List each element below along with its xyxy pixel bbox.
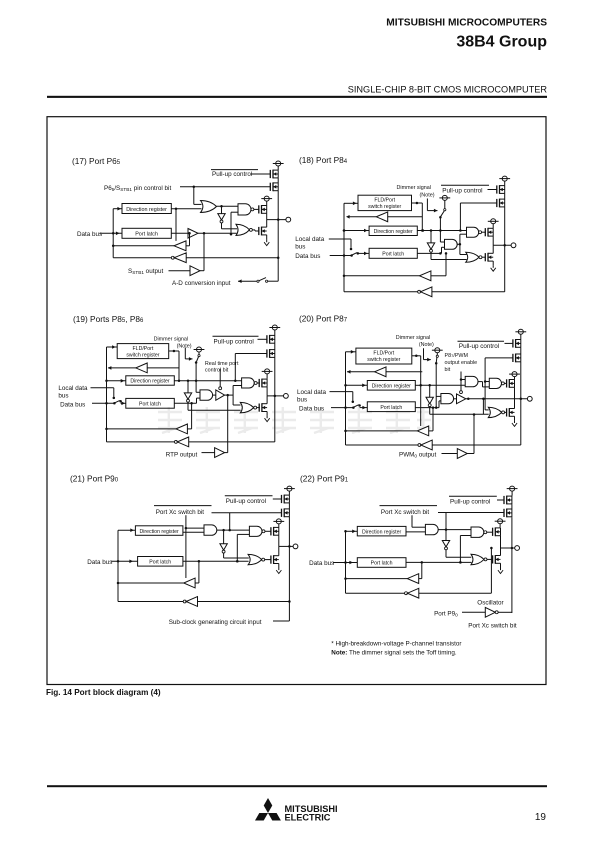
wire inverter out to NOR c18 (431, 252, 467, 260)
svg-text:(21) Port P90: (21) Port P90 (70, 474, 119, 484)
vcc terminal c17 mid (261, 196, 272, 206)
svg-text:bus: bus (297, 396, 307, 403)
svg-text:Fig. 14 Port block diagram (4: Fig. 14 Port block diagram (4) (46, 688, 161, 697)
label Local data bus c18 (295, 236, 325, 251)
switch blade + port latch arrow c19 (115, 400, 126, 405)
wire port latch row to NAND c17 (230, 212, 238, 235)
wire left bus c18 (343, 203, 346, 291)
svg-text:Local data: Local data (58, 385, 88, 392)
note asterisk (331, 641, 461, 648)
wire port P90 to buffer c22 (462, 611, 485, 613)
wire NOR out to Q4 c18 (482, 256, 486, 258)
vcc terminal c19 mid (262, 369, 273, 379)
wire readback row1 c17 (113, 245, 174, 247)
nand gate G2 c22 (471, 527, 487, 537)
wire Q3 drain c22 (500, 536, 502, 548)
wire readback row2 c17 (113, 257, 171, 259)
svg-text:(Note): (Note) (177, 343, 192, 349)
wire B3 out to bus c22 (498, 611, 512, 613)
wire readback row1 c22 (346, 578, 408, 580)
wire left bus c21 (117, 530, 120, 601)
svg-text:Port Xc switch bit: Port Xc switch bit (381, 509, 430, 516)
svg-text:Data bus: Data bus (60, 402, 85, 409)
wire port latch to buffer c17 (171, 232, 188, 234)
svg-text:P87/PWM: P87/PWM (445, 353, 469, 359)
buffer B1 fld readback c19 (136, 363, 147, 373)
svg-text:bit: bit (445, 367, 451, 373)
svg-text:FLD/Port: FLD/Port (373, 351, 394, 357)
buffer B2 readback c18 (420, 271, 431, 281)
footer wordmark MITSUBISHI ELECTRIC (285, 804, 338, 823)
wire dir reg input arrow c22 (344, 530, 357, 534)
title (22) Port P91 (300, 474, 349, 484)
wire dir reg input arrow c17 (113, 207, 122, 211)
and gate G1 c19 (200, 390, 213, 400)
wire inverter out to NOR c19 (188, 402, 241, 410)
inverter V1 c22 (442, 541, 449, 550)
label Dimmer signal c18 (397, 185, 435, 198)
svg-text:(19) Ports P85, P86: (19) Ports P85, P86 (73, 314, 144, 324)
label Data bus c20 (299, 405, 324, 412)
wire port latch out c20 (415, 401, 441, 408)
output pad P84 pin c18 (511, 243, 516, 248)
buffer B3 oscillator c22 (485, 607, 498, 617)
label Data bus c21 (87, 559, 112, 566)
buffer B4 readback c19 (174, 437, 188, 447)
svg-text:PWM0 output: PWM0 output (399, 451, 437, 458)
wire port latch out row c21 (183, 560, 249, 563)
wire NAND bottom input c22 (459, 536, 471, 564)
pmos Q2 pull-up c21 (282, 503, 290, 517)
svg-text:FLD/Port: FLD/Port (374, 198, 395, 204)
wire B2 input from pin c21 (198, 601, 290, 603)
wire Q2 gate corner c19 (234, 354, 267, 383)
page header: 38B4 Group title (456, 34, 547, 51)
wire Q3 drain c20 (514, 387, 516, 399)
svg-text:Port latch: Port latch (135, 232, 158, 238)
inverter V1 c19 (184, 393, 191, 402)
svg-text:Pull-up control: Pull-up control (212, 171, 252, 178)
buffer B1 c17 (188, 229, 198, 239)
switch blade + port latch arrow c18 (352, 252, 369, 256)
svg-text:Pull-up control: Pull-up control (442, 187, 482, 194)
wire readback row2 c22 (346, 592, 405, 594)
svg-text:bus: bus (295, 244, 305, 251)
label Sub-clock generating circuit input c21 (169, 619, 262, 626)
svg-text:Pull-up control: Pull-up control (226, 498, 266, 505)
wire right bus c22 (511, 518, 514, 613)
svg-text:SSTB1 output: SSTB1 output (128, 268, 163, 275)
wire pwm enable drop c20 (460, 372, 466, 393)
wire local data bus corner c18 (329, 239, 352, 250)
svg-text:Port latch: Port latch (382, 252, 404, 258)
wire NOR out to Q4 c20 (505, 411, 507, 413)
buffer B1 readback c22 (407, 574, 418, 584)
wire SSTB1 to buffer c17 (169, 270, 191, 272)
nand gate G2 c17 (238, 204, 254, 215)
buffer B3 readback c20 (417, 426, 428, 436)
svg-text:Pull-up control: Pull-up control (214, 338, 254, 345)
wire buffer out c19 (225, 394, 234, 397)
nand gate G2 c20 (489, 378, 504, 388)
wire Q3 drain c18 (492, 236, 494, 245)
svg-text:(Note): (Note) (419, 342, 434, 348)
buffer B4 sstb c17 (190, 266, 200, 276)
svg-text:Data bus: Data bus (299, 405, 324, 412)
buffer B3 readback c17 (171, 253, 186, 263)
svg-text:(20) Port P87: (20) Port P87 (299, 314, 348, 324)
wire RTP to buffer c19 (202, 452, 215, 454)
svg-text:output enable: output enable (445, 360, 478, 366)
wire A-D line with arrow c17 (238, 279, 257, 283)
wire dir reg input arrow c20 (344, 384, 367, 388)
vcc terminal c22 mid (495, 519, 506, 528)
wire pull-up to Q1 gate c18 (488, 189, 498, 191)
svg-text:Direction register: Direction register (130, 379, 169, 385)
inverter V1 c18 (427, 243, 434, 252)
svg-text:Data bus: Data bus (295, 253, 320, 260)
label Local data bus c19 (58, 385, 88, 400)
wire output row c18 (493, 244, 511, 246)
buffer B3 readback c18 (418, 287, 432, 297)
output pad P85 pin c19 (284, 394, 289, 399)
ground c21 (276, 568, 281, 574)
svg-text:Sub-clock generating circuit i: Sub-clock generating circuit input (169, 619, 262, 626)
wire FLD input arrow c18 (344, 202, 358, 206)
wire B2 input c18 (431, 252, 447, 276)
fld/port switch register box c20 (356, 348, 412, 364)
header rule (47, 96, 547, 98)
svg-text:Direction register: Direction register (374, 229, 413, 235)
wire right bus c20 (520, 362, 522, 445)
wire data bus line c19 (92, 402, 116, 405)
title (20) Port P87 (299, 314, 348, 324)
svg-text:Port latch: Port latch (139, 402, 161, 408)
page header: SINGLE-CHIP subtitle (348, 85, 548, 95)
wire B4 input from pin c19 (189, 441, 275, 443)
wire NAND out to Q3 c22 (487, 531, 493, 533)
wire FLD readback row c18 (388, 216, 423, 218)
label RTP output c19 (166, 451, 198, 458)
buffer B2 tri-state c19 (216, 387, 225, 400)
label Dimmer signal c19 (154, 337, 192, 350)
buffer B5 rtp c19 (215, 448, 225, 458)
switch blade + port latch arrow c20 (354, 404, 368, 409)
and gate G1 c22 (425, 524, 438, 534)
svg-text:38B4 Group: 38B4 Group (456, 34, 547, 51)
pmos Q1 pull-up c22 (504, 496, 512, 505)
nand gate G2 c18 (467, 227, 482, 237)
output pad P87 pin c20 (527, 396, 532, 401)
wire NAND out to Q3 gate c17 (254, 208, 259, 210)
wire right bus c19 (274, 357, 277, 442)
buffer B3 readback c19 (176, 424, 187, 434)
vcc terminal c18 mid (488, 219, 499, 229)
wire pull-up to Q1 gate c21 (273, 498, 282, 500)
pmos Q1 pull-up c18 (497, 185, 505, 194)
svg-text:Pull-up control: Pull-up control (450, 498, 490, 505)
wire readback row1 c19 (107, 428, 177, 430)
svg-text:bus: bus (58, 393, 68, 400)
wire dir reg out row c19 (174, 380, 241, 383)
wire AND out to buffer c19 (213, 394, 216, 396)
svg-text:(22) Port P91: (22) Port P91 (300, 474, 349, 484)
and gate Gpwm c20 (465, 376, 478, 386)
svg-text:Dimmer signal: Dimmer signal (397, 185, 431, 191)
vcc terminal c17 top (273, 161, 284, 170)
wire buffer out to NAND/NOR c19 (233, 386, 242, 406)
label Pull-up control c18 (441, 185, 489, 194)
wire pin-control-bit drop to OR c17 (194, 187, 202, 205)
nmos Q4 driver c22 (493, 548, 501, 568)
wire FLD input arrow c20 (346, 350, 356, 354)
wire dimmer note line c18 (427, 199, 437, 213)
nor gate G3 c21 (248, 554, 265, 564)
vcc terminal c21 top (284, 486, 295, 495)
output pad P91 pin c22 (515, 546, 520, 551)
label Dimmer signal c20 (396, 335, 434, 348)
direction register box c22 (357, 526, 406, 536)
svg-text:(18) Port P84: (18) Port P84 (299, 155, 348, 165)
port latch box c21 (138, 557, 183, 567)
wire RTP bit drop c19 (220, 369, 228, 453)
label Port Xc switch bit c21 (154, 506, 212, 516)
wire FLD readback row c19 (147, 367, 179, 369)
wire left bus c19 (105, 347, 108, 442)
label Port Xc switch bit c22 (380, 506, 438, 516)
wire dimmer note line c19 (185, 348, 192, 361)
wire B3 input from pin c17 (186, 257, 278, 259)
dimmer switch c19 (195, 355, 200, 364)
label Data bus c17 (77, 231, 102, 238)
wire readback row2 c20 (346, 444, 419, 446)
label A-D conversion input c17 (172, 280, 231, 287)
svg-text:Port Xc switch bit: Port Xc switch bit (156, 509, 205, 516)
svg-text:MITSUBISHI MICROCOMPUTERS: MITSUBISHI MICROCOMPUTERS (386, 18, 547, 29)
label PWM0 output c20 (399, 451, 437, 458)
svg-text:Port Xc switch bit: Port Xc switch bit (468, 623, 517, 630)
wire AND out row c22 (438, 529, 471, 531)
wire dir reg out row c20 (415, 384, 422, 386)
wire switch bit drop c22 (412, 515, 426, 527)
svg-text:Note: The dimmer signal sets t: Note: The dimmer signal sets the Toff ti… (331, 650, 457, 657)
title (21) Port P90 (70, 474, 119, 484)
ground c18 (491, 265, 496, 271)
buffer B2 readback c17 (174, 241, 186, 251)
direction register box c18 (369, 226, 417, 235)
pmos Q2 pull-up c20 (513, 347, 521, 362)
wire switch bit drop c21 (185, 515, 188, 578)
wire FLD out corner c19 (169, 350, 181, 382)
wire output row c21 (279, 545, 293, 548)
svg-text:* High-breakdown-voltage P-cha: * High-breakdown-voltage P-channel trans… (331, 641, 461, 648)
nmos Q4 driver c21 (271, 546, 279, 567)
wire B1 out to bus c18 (346, 215, 376, 219)
dimmer switch c18 (439, 209, 446, 219)
wire left bus c17 (112, 209, 115, 258)
buffer B1 readback c21 (184, 578, 195, 588)
wire readback row2 c19 (107, 441, 175, 443)
wire output node row c17 (267, 218, 286, 221)
wire FLD out corner c20 (412, 355, 422, 426)
wire local data bus corner c20 (330, 392, 355, 403)
buffer B1 fld readback c18 (376, 212, 387, 222)
title (19) Ports P85 P86 (73, 314, 144, 324)
ground c17 (264, 240, 269, 246)
label Pull-up control c21 (225, 496, 273, 505)
pmos Q1 pull-up c19 (267, 335, 275, 344)
wire NAND out to Q3 gate c18 (482, 231, 486, 233)
nand gate G2 c19 (242, 378, 258, 388)
page number 19 (535, 812, 547, 823)
wire dirreg to inverter c19 (187, 381, 189, 393)
label Port Xc switch bit lower c22 (468, 623, 517, 630)
svg-text:RTP output: RTP output (166, 451, 198, 458)
svg-text:Data bus: Data bus (309, 560, 334, 567)
wire dir reg input arrow c19 (105, 379, 126, 383)
inverter V1 c20 (426, 397, 433, 406)
label Data bus c18 (295, 253, 320, 260)
wire right bus c18 (503, 207, 506, 292)
fld/port switch register box c19 (117, 344, 169, 359)
wire data bus arrow c17 (100, 232, 122, 236)
pmos Q3 driver c21 (271, 527, 279, 536)
nor gate G4 c19 (240, 402, 256, 413)
pmos Q1 pull-up c17 (270, 170, 278, 179)
wire data bus arrow c22 (333, 561, 357, 565)
svg-text:Direction register: Direction register (362, 529, 401, 535)
wire NAND bottom input c21 (236, 534, 250, 562)
direction register box c19 (126, 376, 175, 385)
nor gate G3 c22 (471, 554, 487, 565)
or gate G1 c17 (201, 201, 217, 213)
wire inverter out to NOR c21 (224, 553, 249, 558)
wire dimmer drop c20 (435, 363, 441, 409)
figure border box (47, 117, 546, 685)
buffer B4 readback c20 (418, 440, 432, 450)
ground c20 (512, 420, 517, 426)
wire readback row1 c20 (346, 430, 418, 432)
wire dimmer note line c20 (424, 348, 431, 361)
wire switch to bus c17 (268, 280, 278, 282)
wire dir reg out row c18 (417, 229, 467, 232)
dimmer vcc terminal c19 (194, 347, 205, 355)
label Pull-up control c22 (449, 496, 497, 505)
direction register box c20 (367, 381, 415, 391)
ground c19 (265, 416, 270, 422)
wire switch bit to Q2 gate c21 (212, 513, 282, 532)
wire B3 input c19 (187, 402, 192, 429)
svg-text:Dimmer signal: Dimmer signal (396, 335, 430, 341)
wire readback row1 c18 (344, 275, 420, 277)
and gate G1 c20 (441, 394, 454, 404)
wire right bus c17 (277, 191, 280, 282)
wire switch bit to Q2 gate c22 (438, 513, 504, 531)
label Real time port control bit c19 (205, 361, 239, 374)
nor gate G4 c18 (466, 252, 482, 262)
wire data bus line c18 (330, 254, 353, 257)
page header: MITSUBISHI MICROCOMPUTERS (386, 18, 547, 29)
wire Q3 drain c19 (266, 387, 268, 396)
label SSTB1 output c17 (128, 268, 163, 275)
wire readback row1 c21 (118, 582, 184, 584)
svg-text:(Note): (Note) (420, 192, 435, 198)
dimmer vcc terminal c18 (439, 195, 450, 208)
wire B5 out c19 (225, 452, 228, 454)
port latch box c22 (357, 558, 406, 568)
wire AND out to NAND/NOR c18 (460, 234, 468, 254)
port latch box c17 (122, 228, 171, 238)
wire dirreg to inverter c18 (430, 231, 432, 243)
label P87/PWM output enable bit c20 (445, 353, 478, 373)
svg-text:Oscillator: Oscillator (477, 599, 503, 606)
pmos Q2 pull-up c18 (497, 193, 505, 207)
wire readback row2 c18 (344, 291, 418, 293)
direction register box c21 (135, 526, 183, 536)
wire buffer B1 out to NOR c17 (198, 232, 237, 234)
svg-text:ELECTRIC: ELECTRIC (285, 813, 331, 823)
svg-text:FLD/Port: FLD/Port (133, 346, 154, 352)
wire data bus arrow c21 (111, 560, 138, 564)
svg-text:Port latch: Port latch (371, 561, 393, 567)
vcc terminal c22 top (507, 486, 518, 495)
svg-text:Port latch: Port latch (149, 559, 171, 565)
and gate G1 c21 (204, 525, 217, 535)
output pad P90 pin c21 (293, 544, 298, 549)
wire NAND out to Q3 gate c20 (504, 382, 507, 384)
svg-text:switch register: switch register (368, 204, 401, 210)
port latch box c18 (369, 248, 417, 258)
label Port P90 c22 (434, 611, 458, 618)
svg-text:19: 19 (535, 812, 547, 823)
wire AND out c18 (457, 243, 461, 246)
wire OR output to NAND c17 (217, 205, 239, 208)
wire NOR out to Q4 c22 (487, 558, 493, 560)
pmos Q2 pull-up c17 (270, 178, 278, 191)
nmos Q4 driver c17 (259, 220, 267, 240)
buffer B1 fld readback c20 (375, 367, 386, 377)
wire pin-control-bit line c17 (180, 186, 271, 189)
wire FLD readback row c20 (386, 371, 422, 373)
wire dir reg input arrow c18 (343, 229, 369, 233)
svg-text:A-D conversion input: A-D conversion input (172, 280, 231, 287)
wire B2 input c17 (186, 232, 191, 246)
wire dir reg out to AND c22 (406, 531, 426, 533)
vcc terminal c20 top (515, 329, 526, 339)
wire dir reg stub down c17 (175, 209, 177, 241)
wire local data bus corner c19 (91, 388, 116, 399)
wire output row c22 (501, 547, 515, 549)
wire OR out drop to inverter c17 (221, 206, 223, 213)
wire B3 input from pin c18 (432, 291, 505, 293)
port latch box c20 (367, 402, 415, 412)
wire NOR out to Q4 c19 (257, 407, 260, 409)
wire port latch out row c22 (406, 561, 472, 564)
wire output row c19 (267, 395, 283, 397)
svg-text:Port P90: Port P90 (434, 611, 458, 618)
title (18) Port P84 (299, 155, 348, 165)
wire B1 input c22 (419, 563, 422, 579)
watermark (158, 407, 431, 433)
svg-text:control bit: control bit (205, 368, 229, 374)
pmos Q3 driver c19 (259, 378, 267, 387)
label Pull-up control c20 (458, 341, 505, 350)
dimmer switch c20 (435, 355, 438, 364)
wire B1 out to bus c19 (108, 366, 136, 370)
pmos Q3 driver c17 (259, 205, 267, 214)
label Data bus c19 (60, 402, 85, 409)
svg-text:Data bus: Data bus (87, 559, 112, 566)
